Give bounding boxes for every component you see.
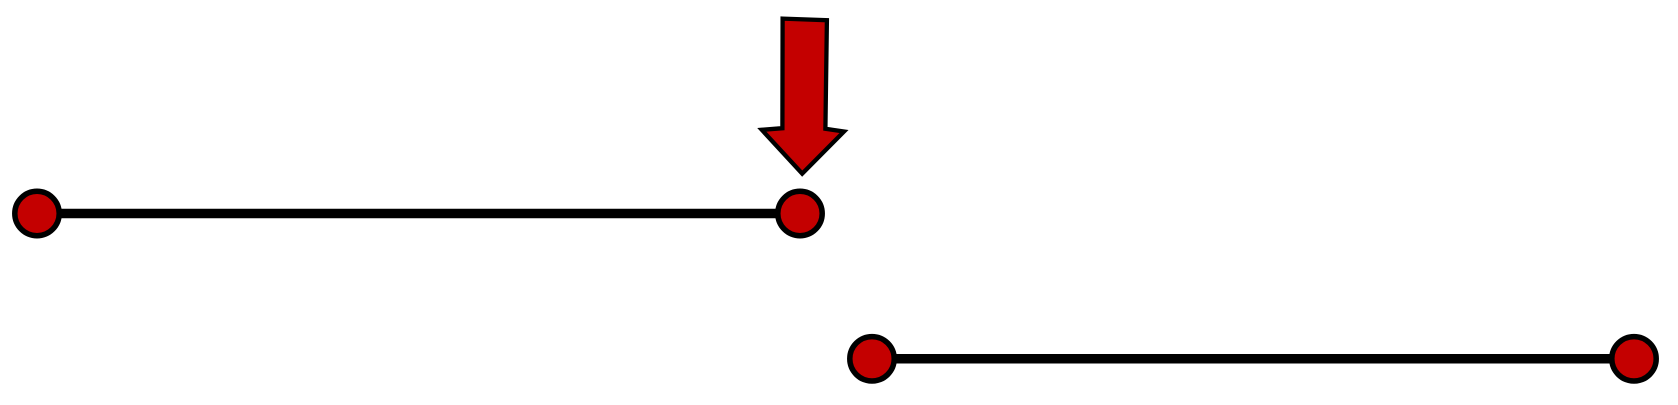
- node A (left end of upper segment): [15, 191, 59, 235]
- node C (left end of lower segment): [850, 337, 894, 381]
- wire (upper-left segment): [37, 209, 800, 219]
- arrow (red down arrow pointing at node B): [762, 19, 844, 174]
- node D (right end of lower segment): [1612, 337, 1656, 381]
- node B (right end of upper segment): [778, 191, 822, 235]
- wire (lower-right segment): [872, 354, 1634, 364]
